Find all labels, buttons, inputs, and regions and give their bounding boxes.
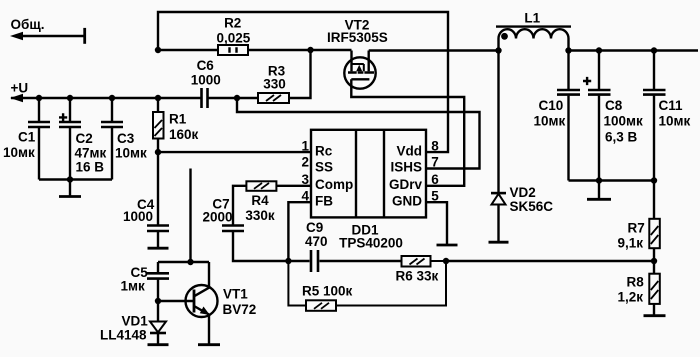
svg-text:330: 330 — [263, 77, 286, 92]
node C8 bottom — [596, 177, 602, 183]
capacitor C10 — [557, 51, 580, 181]
wire ISHS sense line — [237, 98, 480, 169]
node +U/R1 riser — [155, 95, 161, 101]
wire C5-collector link — [158, 261, 209, 263]
node Общ. terminal — [10, 28, 85, 44]
svg-text:C1: C1 — [18, 130, 36, 145]
svg-text:47мк: 47мк — [75, 146, 107, 161]
svg-text:330к: 330к — [245, 208, 275, 223]
svg-text:Comp: Comp — [315, 177, 353, 192]
node +U/C1 — [36, 95, 42, 101]
svg-text:10мк: 10мк — [115, 146, 147, 161]
svg-text:L1: L1 — [524, 11, 540, 26]
capacitor C1 — [28, 98, 50, 180]
svg-text:GND: GND — [392, 193, 422, 208]
wire drain rail to L1 — [369, 49, 499, 51]
wire output caps bottom bus — [569, 179, 655, 181]
ground C4 — [148, 247, 169, 250]
node R2 left — [155, 47, 161, 53]
wire R2 net y=50 — [158, 49, 352, 51]
wire output rail — [569, 49, 699, 51]
svg-text:VD1: VD1 — [122, 314, 149, 329]
svg-text:470: 470 — [305, 234, 328, 249]
svg-text:0,025: 0,025 — [217, 30, 251, 45]
ground C2 bus — [59, 180, 81, 197]
svg-text:VD2: VD2 — [510, 185, 536, 200]
inductor L1 — [496, 27, 571, 51]
svg-text:C9: C9 — [306, 220, 323, 235]
node C2 bottom bus — [67, 176, 73, 182]
svg-text:Общ.: Общ. — [11, 17, 45, 32]
transistor VT1 — [158, 262, 218, 344]
capacitor C5 — [147, 262, 169, 301]
diode VD1 — [150, 301, 166, 344]
svg-text:C10: C10 — [539, 98, 564, 113]
svg-text:1мк: 1мк — [121, 279, 145, 294]
wire FB pin4 — [288, 202, 311, 261]
svg-text:C11: C11 — [659, 98, 684, 113]
svg-text:6: 6 — [431, 172, 439, 187]
wire Comp pin3 — [276, 185, 311, 187]
svg-text:1000: 1000 — [123, 209, 153, 224]
svg-text:SK56C: SK56C — [510, 199, 554, 214]
svg-text:LL4148: LL4148 — [100, 328, 147, 343]
svg-text:16 В: 16 В — [76, 160, 105, 175]
wire SS net vertical — [189, 169, 191, 263]
node SS/C5/collector — [187, 259, 193, 265]
ground R8 — [644, 314, 666, 317]
svg-text:R2: R2 — [224, 16, 241, 31]
ground VD1 — [148, 343, 169, 346]
svg-text:C3: C3 — [117, 131, 135, 146]
node L1 right/C10 — [565, 47, 571, 53]
resistor R1 — [153, 98, 164, 152]
svg-text:6,3 В: 6,3 В — [605, 130, 638, 145]
svg-text:8: 8 — [431, 138, 439, 153]
diode VD2 — [491, 51, 506, 243]
resistor R5 — [288, 261, 446, 311]
node C11 bottom/R7 — [651, 177, 657, 183]
resistor R2 — [218, 45, 248, 55]
svg-text:Rc: Rc — [315, 143, 333, 158]
node +U/C3 — [109, 95, 115, 101]
capacitor C7 — [222, 226, 288, 262]
wire +U rail — [11, 50, 311, 98]
svg-text:FB: FB — [315, 193, 333, 208]
svg-text:100мк: 100мк — [604, 114, 644, 129]
node +U/C2 — [67, 95, 73, 101]
wire C1-C2-C3 bottom bus — [39, 178, 112, 180]
ground VD2 — [489, 241, 509, 244]
resistor R7 — [649, 181, 660, 262]
svg-text:1000: 1000 — [191, 72, 221, 87]
op-amp U1 DD1 IC box — [311, 130, 426, 218]
svg-text:10мк: 10мк — [534, 114, 566, 129]
node source/R2/R3 — [307, 47, 313, 53]
capacitor C11 — [643, 51, 666, 181]
capacitor C8 (electrolytic) — [583, 51, 611, 181]
svg-text:ISHS: ISHS — [390, 160, 422, 175]
svg-text:BV72: BV72 — [223, 302, 257, 317]
node out/C8 — [596, 47, 602, 53]
node R7/R8 divider — [651, 258, 657, 264]
node R1/C4/Rc — [155, 149, 161, 155]
wire top rail Vdd loop — [158, 12, 448, 152]
svg-text:2: 2 — [301, 155, 309, 170]
svg-text:VT1: VT1 — [223, 287, 248, 302]
node L1 left/VD2 — [495, 47, 501, 53]
svg-text:7: 7 — [431, 155, 439, 170]
svg-text:Vdd: Vdd — [397, 143, 423, 158]
svg-text:R6 33к: R6 33к — [396, 269, 439, 284]
capacitor C6 — [202, 88, 208, 108]
svg-text:R7: R7 — [628, 221, 645, 236]
svg-text:SS: SS — [315, 160, 333, 175]
svg-text:2000: 2000 — [202, 210, 232, 225]
capacitor C9 — [288, 250, 401, 272]
ground C8 bus — [587, 181, 611, 200]
ground VT1 emitter — [198, 343, 220, 346]
node +U terminal arrow — [10, 94, 23, 102]
svg-text:9,1к: 9,1к — [618, 236, 644, 251]
svg-text:TPS40200: TPS40200 — [339, 236, 403, 251]
capacitor C2 (electrolytic) — [59, 98, 81, 180]
svg-text:10мк: 10мк — [659, 114, 691, 129]
wire GND pin5 — [426, 202, 447, 244]
node out/C11 — [651, 47, 657, 53]
ground DD1 GND — [437, 244, 458, 247]
transistor VT2 MOSFET — [344, 51, 375, 89]
svg-text:C6: C6 — [197, 58, 215, 73]
resistor R8 — [649, 261, 660, 315]
node C6/R3/ISHS — [234, 95, 240, 101]
resistor R4 — [246, 181, 276, 191]
svg-text:R1: R1 — [169, 112, 187, 127]
svg-text:R4: R4 — [251, 193, 269, 208]
svg-text:GDrv: GDrv — [389, 177, 423, 192]
svg-text:160к: 160к — [169, 127, 199, 142]
wire R4 to C7 — [233, 186, 246, 225]
capacitor C4 — [147, 152, 169, 248]
svg-text:1,2к: 1,2к — [618, 290, 644, 305]
wire Rc pin1 net — [158, 151, 311, 153]
node FB/C7/C9/R5 — [285, 258, 291, 264]
svg-text:+U: +U — [11, 81, 29, 96]
svg-text:10мк: 10мк — [3, 145, 35, 160]
capacitor C3 — [101, 98, 123, 180]
resistor R6 — [402, 256, 447, 267]
svg-text:1: 1 — [301, 138, 309, 153]
node C5/VD1/base — [155, 298, 161, 304]
svg-text:R8: R8 — [627, 275, 645, 290]
resistor R3 — [258, 93, 289, 103]
wire feedback rail — [446, 260, 654, 262]
node R6/R5 right — [443, 258, 449, 264]
svg-text:C2: C2 — [76, 131, 93, 146]
svg-text:IRF5305S: IRF5305S — [327, 30, 388, 45]
wire gate to GDrv — [351, 79, 464, 186]
svg-text:R5 100к: R5 100к — [302, 284, 353, 299]
svg-text:C8: C8 — [605, 98, 623, 113]
